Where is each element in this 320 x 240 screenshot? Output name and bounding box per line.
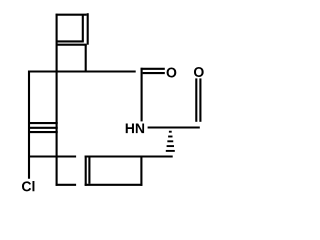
- bond: left ring left vertical down to Cl: [28, 71, 30, 179]
- hashed wedge bond dash 1: [169, 131, 172, 133]
- atom label HN (amide nitrogen): [126, 123, 144, 133]
- bond: lower-left ring top horizontal: [28, 155, 76, 157]
- bond: top ring right double bond, outer line: [87, 13, 89, 45]
- hashed wedge bond dash 3: [167, 140, 173, 142]
- bond: lower ring left double bond, inner line: [88, 158, 90, 184]
- bond: left ring parallel line 3: [28, 131, 58, 133]
- bond: top ring lower double bond, inner line: [57, 40, 84, 42]
- bond: left ring parallel line 2: [28, 127, 58, 129]
- bond: aldehyde C=O right line: [199, 78, 201, 121]
- bond: top ring lower double bond, outer line: [57, 44, 87, 46]
- hashed wedge bond dash 2: [168, 136, 172, 138]
- bond: right vertical below top ring: [85, 45, 87, 72]
- hashed wedge bond dash 4: [167, 145, 174, 147]
- atom label Cl (chlorine): [22, 181, 34, 191]
- bond: amide C-N vertical: [141, 68, 143, 122]
- bond: lower ring right vertical: [140, 156, 142, 186]
- bond: left ring parallel line 1: [28, 122, 58, 124]
- atom label O (amide oxygen): [167, 68, 177, 78]
- bond: lower ring top edge extending to wedge: [85, 155, 173, 157]
- bond: amide C=O lower line: [143, 72, 165, 74]
- bond: top ring right double bond, inner line: [82, 15, 84, 42]
- bond: aldehyde C=O left line: [195, 78, 197, 121]
- bond: lower ring left double bond, outer line: [85, 156, 87, 186]
- atom label O (aldehyde oxygen): [194, 67, 204, 77]
- bond: top ring upper edge: [56, 14, 87, 16]
- hashed wedge bond dash 5: [166, 150, 175, 152]
- bond: amide C=O upper line: [141, 68, 165, 70]
- bond: long left shared ring edge (vertical): [56, 14, 58, 186]
- bond: long horizontal toward amide carbonyl: [28, 70, 136, 72]
- bond: N to stereocenter horizontal: [148, 126, 200, 128]
- bond: bottom-left horizontal: [56, 184, 77, 186]
- bond: lower ring bottom edge: [85, 184, 143, 186]
